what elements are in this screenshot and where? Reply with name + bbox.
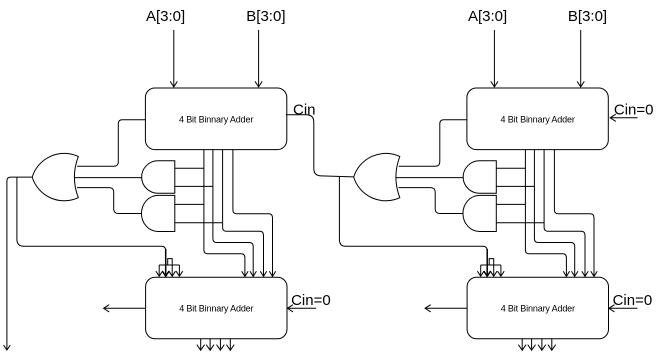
and-gate A22 (bottom, right stage) [463,195,496,231]
wire B[3:0] to adder U2a (right stage) [577,30,584,87]
wire and-gate A11 input 2 stub [175,185,213,187]
wire sum bit S1 from U1a to U1b (left stage) [213,150,257,277]
and-gate A12 (bottom, left stage) [141,195,174,231]
wire carry fan-out bus into U1b top-left (4 arrows) [156,259,183,277]
wire sum bit S1 from U2a to U2b (right stage) [534,150,578,277]
svg-text:B[3:0]: B[3:0] [246,8,285,25]
wire Cin=0 arrow into adder U2b right edge [609,305,638,312]
wire and-gate A22 input 1 stub [496,203,525,205]
wire and-gate A21 input 2 stub [496,185,534,187]
wire result output arrow left from U1b [104,305,146,312]
wire sum output arrow O0 below U1b [197,339,205,350]
wire sum output arrow O2 below U2b [538,339,546,350]
wire and-gate A21 output to OR middle input [396,177,464,179]
wire bold carry arrow into U2b top [484,249,491,276]
wire sum bit S0 from U2a to U2b (right stage) [525,150,569,277]
wire and-gate A22 output to OR bottom input [399,188,464,214]
adder U1b: bottom 4 Bit Binnary Adder (left stage) [146,277,287,339]
wire sum output arrow O2 below U1b [217,339,225,350]
svg-text:B[3:0]: B[3:0] [568,8,607,25]
svg-text:4 Bit Binnary Adder: 4 Bit Binnary Adder [501,304,575,314]
wire branch from G1 output to U1b bold carry input [17,177,166,251]
or-gate G1 (left stage) [32,153,78,200]
wire sum bit S0 from U1a to U1b (left stage) [204,150,248,277]
svg-text:Cin=0: Cin=0 [291,292,331,309]
wire carry fan-out bus into U2b top-left (4 arrows) [477,259,504,277]
wire U1a left edge to OR gate top input (left stage) [77,120,145,167]
wire Cin=0 arrow into adder U2a right edge [610,114,637,121]
wire result output arrow left from U2b [425,305,467,312]
wire branch from G2 output to U2b bold carry input [339,177,487,251]
wire A[3:0] to adder U2a (right stage) [491,30,498,87]
wire bold carry arrow into U1b top [162,249,169,276]
wire Cin=0 arrow into adder U1b right edge [287,305,316,312]
svg-text:4 Bit Binnary Adder: 4 Bit Binnary Adder [179,115,253,125]
wire and-gate A12 output to OR bottom input [77,188,142,214]
wire U2a left edge to OR gate top input (right stage) [399,120,467,167]
svg-text:A[3:0]: A[3:0] [468,8,507,25]
or-gate G2 (right stage) [354,153,400,200]
and-gate A11 (top, left stage) [142,161,175,194]
wire sum output arrow O3 below U1b [226,339,234,350]
svg-text:4 Bit Binnary Adder: 4 Bit Binnary Adder [500,115,574,125]
svg-text:A[3:0]: A[3:0] [146,8,185,25]
svg-text:Cin=0: Cin=0 [614,102,654,119]
wire and-gate A22 input 2 stub [496,222,544,224]
wire and-gate A12 input 1 stub [175,203,204,205]
adder U2a: top 4 Bit Binnary Adder (right stage) [467,88,608,150]
wire sum bit S2 from U1a to U1b (left stage) [223,150,267,277]
wire A[3:0] to adder U1a (left stage) [170,30,177,87]
svg-text:4 Bit Binnary Adder: 4 Bit Binnary Adder [179,304,253,314]
svg-text:Cin=0: Cin=0 [613,292,653,309]
adder U2b: bottom 4 Bit Binnary Adder (right stage) [467,277,608,339]
wire sum output arrow O1 below U2b [528,339,536,350]
wire and-gate A11 input 1 stub [175,167,204,169]
wire sum output arrow O0 below U2b [518,339,526,350]
wire Cin of U1a from OR gate of right stage [286,115,354,177]
wire sum output arrow O1 below U1b [206,339,214,350]
wire B[3:0] to adder U1a (left stage) [255,30,262,87]
wire and-gate A11 output to OR middle input [74,177,142,179]
wire sum bit S3 from U1a to U1b (left stage) [233,150,276,277]
wire and-gate A12 input 2 stub [175,222,223,224]
wire carry-out from or-gate G1 output down to bottom arrow [4,177,33,350]
svg-text:Cin: Cin [293,102,316,119]
adder U1a: top 4 Bit Binnary Adder (left stage) [145,88,286,150]
wire sum bit S2 from U2a to U2b (right stage) [544,150,588,277]
wire and-gate A21 input 1 stub [496,167,525,169]
wire sum output arrow O3 below U2b [548,339,556,350]
wire sum bit S3 from U2a to U2b (right stage) [554,150,597,277]
and-gate A21 (top, right stage) [463,161,496,194]
